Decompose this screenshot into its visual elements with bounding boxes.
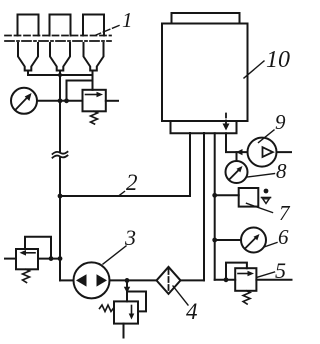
svg-text:4: 4 — [186, 299, 198, 324]
node on main vertical — [58, 256, 63, 261]
pump 9 circle — [248, 138, 277, 167]
wire branch down — [126, 280, 128, 301]
node valve5 pilot — [224, 277, 229, 282]
box 7 — [239, 188, 259, 207]
wire to gauge 6 — [215, 239, 241, 241]
valve arrow — [86, 94, 100, 96]
leader 10 — [244, 61, 264, 78]
valve output stub — [5, 258, 16, 260]
box 7 vent line — [262, 197, 271, 199]
main vertical wire upper — [59, 71, 61, 152]
valve pilot loop right — [127, 292, 146, 312]
pump 9 triangle — [263, 147, 273, 157]
gauge 8 stub — [236, 152, 238, 161]
node main vertical on main line — [58, 98, 63, 103]
hopper unit 2 rectangle — [50, 15, 71, 36]
valve output wire — [106, 100, 118, 102]
hopper unit 3 rectangle — [83, 15, 104, 36]
tank bottom box — [171, 121, 237, 133]
svg-text:8: 8 — [276, 159, 287, 183]
wire main vertical to pump — [60, 279, 74, 281]
pump right triangle — [97, 274, 108, 286]
gauge 8 needle — [229, 169, 240, 180]
node pilot on main line — [64, 98, 69, 103]
wire to box 7 — [215, 194, 239, 196]
leader 9 — [259, 130, 275, 143]
svg-text:2: 2 — [126, 170, 138, 195]
pressure gauge (top-left) — [11, 88, 37, 114]
valve 5 arrow — [238, 273, 250, 275]
wire pilot horizontal — [67, 80, 93, 82]
wire pipe to right column — [214, 133, 216, 280]
wire line 2 riser — [189, 133, 191, 196]
wire filter riser — [203, 133, 205, 280]
svg-text:7: 7 — [279, 201, 291, 225]
leader 3 — [103, 246, 126, 264]
wire gauge to valve — [37, 100, 83, 102]
valve spring horizontal — [100, 305, 115, 312]
valve spring — [91, 111, 98, 124]
valve 5 output wire — [256, 279, 291, 281]
dash-dot center line — [5, 40, 111, 42]
valve 5 box — [235, 268, 256, 291]
valve arrow left — [24, 252, 35, 254]
node pilot loop — [49, 256, 54, 261]
pump 9 output wire — [277, 151, 292, 153]
svg-text:1: 1 — [122, 8, 133, 32]
node box7 branch — [212, 193, 217, 198]
valve 5 pilot loop — [226, 263, 247, 280]
funnel 1 — [18, 43, 38, 71]
dashed line through hoppers — [5, 35, 111, 37]
wire line 2 — [60, 195, 190, 197]
wire funnel3 vertical — [92, 71, 94, 90]
funnel 2 — [50, 43, 70, 71]
wire funnel1 to funnel3 vertical — [28, 74, 93, 76]
filter dashed element — [168, 269, 170, 292]
svg-text:6: 6 — [278, 225, 289, 249]
tank return dashed arrow — [225, 114, 227, 125]
valve input wire — [38, 258, 60, 260]
gauge 6 circle — [241, 228, 266, 253]
svg-text:10: 10 — [266, 47, 290, 73]
overflow valve (bottom-center) box — [114, 301, 138, 323]
wire pipe to pump9 — [226, 133, 248, 152]
node line2 junction — [58, 194, 63, 199]
valve arrow down — [131, 306, 133, 316]
leader 1 — [96, 26, 119, 36]
relief valve (bottom-left) box — [16, 249, 38, 269]
main vertical wire lower — [59, 158, 61, 280]
pilot loop bottom-left valve — [25, 237, 51, 259]
valve drain wire — [123, 324, 125, 338]
wire filter to riser — [181, 279, 205, 281]
tank 10 body — [162, 24, 248, 122]
funnel 3 — [84, 43, 104, 71]
gauge needle — [16, 96, 29, 110]
tank 10 lid — [172, 13, 240, 24]
leader 8 — [248, 174, 275, 178]
svg-text:9: 9 — [275, 110, 286, 134]
node overflow branch — [125, 278, 130, 283]
wire pipe corner to valve5 — [215, 279, 236, 281]
leader 6 — [264, 243, 277, 248]
box 7 vent triangle — [263, 199, 269, 204]
line break symbol — [53, 152, 68, 154]
leader 4 — [173, 286, 188, 305]
gauge 6 needle — [246, 237, 257, 248]
leader 5 — [257, 272, 275, 278]
svg-text:3: 3 — [124, 225, 136, 250]
hopper unit 1 rectangle — [18, 15, 39, 36]
pump 3 circle — [74, 262, 110, 298]
flow arrowhead on pump9 line — [236, 149, 243, 155]
pressure reducing valve (top) box — [83, 90, 106, 112]
node gauge6 branch — [212, 238, 217, 243]
filter 4 diamond — [157, 267, 181, 294]
flow arrowhead down — [124, 287, 130, 293]
pump left triangle — [76, 274, 87, 286]
wire pilot drop — [66, 81, 68, 101]
leader 7 — [247, 203, 273, 212]
wire pump to filter — [110, 279, 157, 281]
wire funnel1 drop — [27, 71, 29, 76]
box 7 dot symbol — [264, 189, 269, 194]
svg-text:5: 5 — [275, 258, 286, 283]
node funnel2 crossing — [58, 73, 62, 77]
gauge 8 circle — [226, 161, 248, 183]
leader 2 — [119, 192, 125, 197]
valve 5 spring — [243, 291, 250, 304]
valve spring — [23, 269, 30, 282]
